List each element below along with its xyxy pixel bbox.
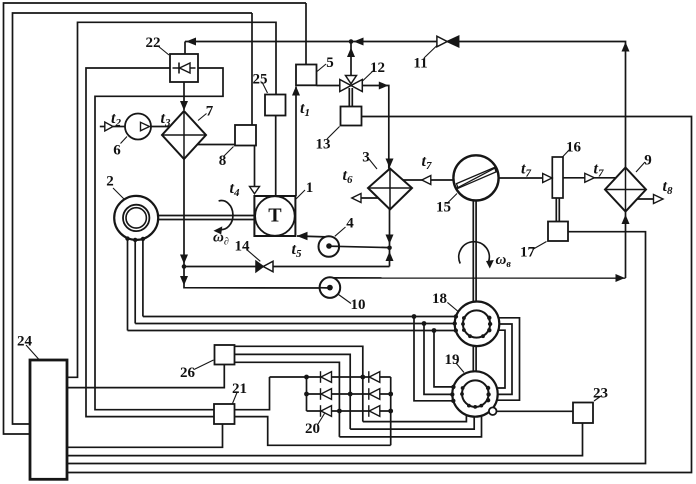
- block 23: [573, 403, 593, 424]
- svg-text:20: 20: [305, 421, 320, 437]
- leader tick 7: [198, 114, 207, 121]
- leader tick 2: [113, 188, 124, 199]
- leader tick 5: [317, 64, 326, 72]
- svg-text:5: 5: [326, 55, 334, 71]
- wire box26 output A to diode row1: [235, 346, 363, 421]
- wire box21 riser to diode row1: [235, 377, 270, 410]
- svg-text:23: 23: [593, 386, 608, 402]
- wire diamond3 bottom to valve14 corner: [389, 210, 391, 267]
- valve 14: [256, 261, 273, 272]
- leader tick 22: [158, 46, 169, 55]
- wire diamond3 to circle15: [403, 179, 454, 181]
- block 21: [214, 404, 235, 424]
- arrow up at top of diamond9 riser: [622, 42, 630, 52]
- arrow up below diamond9 bottom: [622, 215, 630, 225]
- svg-text:t4: t4: [230, 180, 240, 199]
- svg-text:21: 21: [232, 381, 247, 397]
- leader tick 11: [424, 46, 437, 59]
- wire box8 down to t4 arrow at box1: [254, 146, 256, 187]
- wire box5 to valve12: [317, 85, 340, 87]
- arrow right into diamond9 riser foot: [616, 274, 626, 282]
- svg-text:10: 10: [351, 297, 366, 313]
- block 5: [296, 65, 317, 86]
- svg-text:3: 3: [362, 150, 370, 166]
- svg-text:22: 22: [146, 35, 161, 51]
- t2 inlet triangle: [105, 122, 113, 131]
- machine 18: [453, 302, 500, 347]
- svg-text:ω∂: ω∂: [213, 230, 229, 248]
- LEADER TICKS: [26, 46, 645, 425]
- wire circle15 to bar16: [499, 177, 553, 179]
- svg-text:12: 12: [370, 60, 385, 76]
- leader tick 25: [262, 82, 268, 93]
- arrow down into diamond3 top: [386, 159, 394, 169]
- t6 triangle left: [352, 194, 361, 203]
- open triangle arrows: [105, 122, 663, 204]
- node circle4 line at 389.5: [387, 246, 392, 251]
- wire L1 box24 to box21 bottom: [67, 424, 223, 447]
- node diode row2 left bus: [304, 392, 309, 397]
- sensor circle 4: [319, 236, 340, 257]
- wire t5 circle4 to box1: [297, 236, 330, 237]
- heat exchanger diamond 7: [162, 111, 206, 159]
- wire box13 long loop right side down to box24: [67, 117, 692, 473]
- wire machine19 bottom loops to diode bank: [339, 404, 481, 437]
- svg-text:19: 19: [445, 352, 460, 368]
- wire box26 output B to diode row2: [235, 354, 351, 429]
- svg-text:15: 15: [436, 200, 451, 216]
- wire bar16 stem to box17: [556, 198, 559, 222]
- leader tick 4: [335, 227, 346, 236]
- leader tick 13: [327, 127, 340, 140]
- leader tick 1: [296, 190, 305, 199]
- arrow left into box1 (t5): [297, 232, 308, 241]
- block 17: [548, 222, 568, 242]
- wire box25 to box1: [275, 116, 277, 197]
- leader tick 18: [447, 302, 458, 311]
- arrow left into box22 riser: [186, 38, 196, 46]
- svg-text:24: 24: [17, 334, 33, 350]
- svg-text:t5: t5: [292, 241, 302, 260]
- arrow down above node at circle4 line: [386, 235, 394, 245]
- heat exchanger diamond 9: [605, 168, 646, 212]
- wire pump6 to diamond7: [151, 126, 171, 128]
- node bus3 drop: [432, 328, 437, 333]
- heat exchanger diamond 3: [368, 169, 412, 210]
- leader tick 17: [533, 242, 547, 250]
- rotation arc omega_d: [214, 201, 233, 235]
- wire valve12 stem to box13: [349, 88, 352, 107]
- wire t8 stub: [637, 198, 654, 200]
- restrictor bar 16: [552, 157, 563, 198]
- leader tick 16: [562, 149, 570, 158]
- diode bank 20 (6 diodes): [321, 371, 380, 417]
- leader tick 10: [339, 295, 352, 304]
- svg-text:2: 2: [106, 174, 114, 190]
- svg-text:t7: t7: [422, 153, 432, 172]
- node bus2 drop: [422, 321, 427, 326]
- svg-text:T: T: [268, 205, 282, 227]
- block 26: [215, 345, 235, 365]
- t7 triangle right (15 to 16): [543, 174, 552, 183]
- svg-text:9: 9: [644, 153, 652, 169]
- svg-text:7: 7: [206, 104, 214, 120]
- svg-text:13: 13: [316, 137, 331, 153]
- t7 triangle right (16 to 9): [585, 173, 595, 182]
- wire box22-left long path down to box21 underpass: [86, 68, 391, 445]
- svg-text:8: 8: [219, 153, 227, 169]
- node diode row2 right bus: [388, 392, 393, 397]
- wire second border loop to box 8: [13, 13, 253, 424]
- svg-text:26: 26: [180, 365, 196, 381]
- wire diamond7 down through shaft to circle10 feed: [184, 159, 330, 288]
- node diode row1 at A: [360, 375, 365, 380]
- wire machine18 right loops to machine19: [488, 318, 519, 400]
- svg-text:t8: t8: [663, 178, 673, 197]
- leader tick 12: [362, 70, 374, 82]
- svg-text:t7: t7: [594, 161, 604, 180]
- slipring terminal of machine 19: [489, 407, 497, 415]
- block 8: [235, 125, 256, 146]
- wire valve14 line: [184, 266, 390, 268]
- wire diamond7 to box8: [197, 144, 235, 146]
- wire third border loop box24 to box25: [67, 22, 276, 377]
- arrow down above circle10 corner: [180, 276, 188, 286]
- leader tick 21: [233, 393, 238, 404]
- node diode row1 left bus: [304, 375, 309, 380]
- t4 triangle down: [250, 187, 260, 194]
- wire diode right bus: [390, 377, 392, 445]
- leader tick 14: [247, 250, 260, 261]
- svg-text:1: 1: [306, 180, 314, 196]
- svg-text:17: 17: [520, 245, 536, 261]
- sensor circle 10: [319, 277, 340, 298]
- arrow up below node at circle4 line: [386, 252, 394, 262]
- svg-text:6: 6: [113, 143, 121, 159]
- leader tick 19: [456, 363, 464, 373]
- check valve 11: [437, 36, 459, 47]
- node diode row3 at C: [337, 409, 342, 414]
- svg-text:t7: t7: [521, 161, 531, 180]
- wire node junction riser to valve12: [350, 42, 352, 77]
- controller block 24: [30, 360, 67, 479]
- svg-text:t3: t3: [161, 110, 171, 129]
- wire box22-right return path down to box21: [95, 68, 223, 410]
- rotation arc omega_v: [459, 242, 494, 269]
- FLOW ARROWS (filled): [180, 38, 630, 286]
- block 22 with diode symbol: [170, 54, 198, 82]
- arrow down into diamond7 top: [180, 101, 188, 111]
- svg-text:18: 18: [432, 291, 447, 307]
- wire box26 output C to diode row3: [235, 362, 340, 437]
- svg-text:t1: t1: [300, 100, 310, 119]
- svg-text:t6: t6: [343, 167, 353, 186]
- motor 2: [114, 196, 158, 242]
- arrow left into node at 351: [354, 38, 364, 46]
- wire three buses motor2 to machine18: [128, 317, 456, 331]
- wire shaft machine18 to machine19: [473, 346, 476, 372]
- leader tick 9: [636, 162, 645, 172]
- leader tick 23: [594, 396, 601, 401]
- svg-text:ωв: ωв: [496, 252, 512, 270]
- wire t1 riser box1 to box5: [295, 87, 297, 197]
- node at top line 351: [349, 39, 354, 44]
- svg-text:t2: t2: [111, 110, 121, 129]
- wire bar16 to diamond9: [563, 177, 616, 179]
- wire shaft circle15 to machine18: [473, 201, 476, 302]
- arrow down above dot on diamond7 drop: [180, 255, 188, 265]
- flow machine 15 with vane: [453, 155, 498, 200]
- wire shaft motor2 to box1: [158, 216, 254, 220]
- wire box26 bottom riser to box24: [67, 365, 224, 388]
- block 25: [265, 95, 286, 116]
- wire machine19 slipring to box23: [496, 410, 573, 412]
- block 13: [341, 107, 362, 126]
- wire t6 stub: [361, 197, 378, 199]
- wire outer border loop to box 5: [4, 3, 307, 434]
- wire circle10 to diamond9 riser: [333, 212, 626, 279]
- leader tick 3: [369, 159, 377, 169]
- svg-text:14: 14: [235, 239, 251, 255]
- wire t2 input to pump6: [113, 126, 125, 128]
- t8 triangle right: [654, 195, 664, 204]
- wire diode left bus: [306, 377, 308, 411]
- wire main top line y=41.5 with riser into diamond9: [185, 42, 626, 168]
- svg-text:16: 16: [566, 140, 582, 156]
- wire box23 riser and L2 to box24: [67, 423, 583, 456]
- leader tick 8: [224, 147, 234, 157]
- machine 19: [450, 371, 498, 416]
- pump 6: [125, 114, 151, 140]
- leader tick 26: [194, 360, 214, 370]
- leader tick 6: [121, 137, 128, 144]
- wire motor2 terminal drops: [128, 238, 143, 330]
- node valve14 line at 184: [182, 264, 187, 269]
- wire box17 right loop down to box24: [67, 232, 646, 464]
- node diode row3 right bus: [388, 409, 393, 414]
- arrow up into box5 bottom (t1): [292, 86, 300, 96]
- t7 triangle left (15 to 3): [422, 176, 431, 185]
- arrow right at valve12 output corner: [379, 82, 389, 90]
- arrow up below node 351: [347, 48, 355, 58]
- svg-text:25: 25: [253, 72, 268, 88]
- turbine box 1 with T: [254, 196, 295, 236]
- leader tick 15: [447, 194, 457, 204]
- node bus1 drop: [412, 314, 417, 319]
- wire bus drops to machine19: [414, 317, 453, 401]
- wire box22 down to diamond7: [183, 82, 185, 110]
- wire circle4 to node: [329, 246, 390, 247]
- wire diode row1: [270, 376, 391, 378]
- three-way valve 12: [340, 76, 363, 92]
- wire valve12 to diamond3 top: [362, 86, 389, 169]
- svg-text:4: 4: [346, 216, 354, 232]
- svg-text:11: 11: [413, 56, 427, 72]
- node diode row2 at B: [348, 392, 353, 397]
- wire diode row3: [307, 410, 391, 412]
- wire diode row2: [307, 393, 391, 395]
- leader tick 20: [318, 414, 325, 425]
- leader tick 24: [26, 345, 39, 360]
